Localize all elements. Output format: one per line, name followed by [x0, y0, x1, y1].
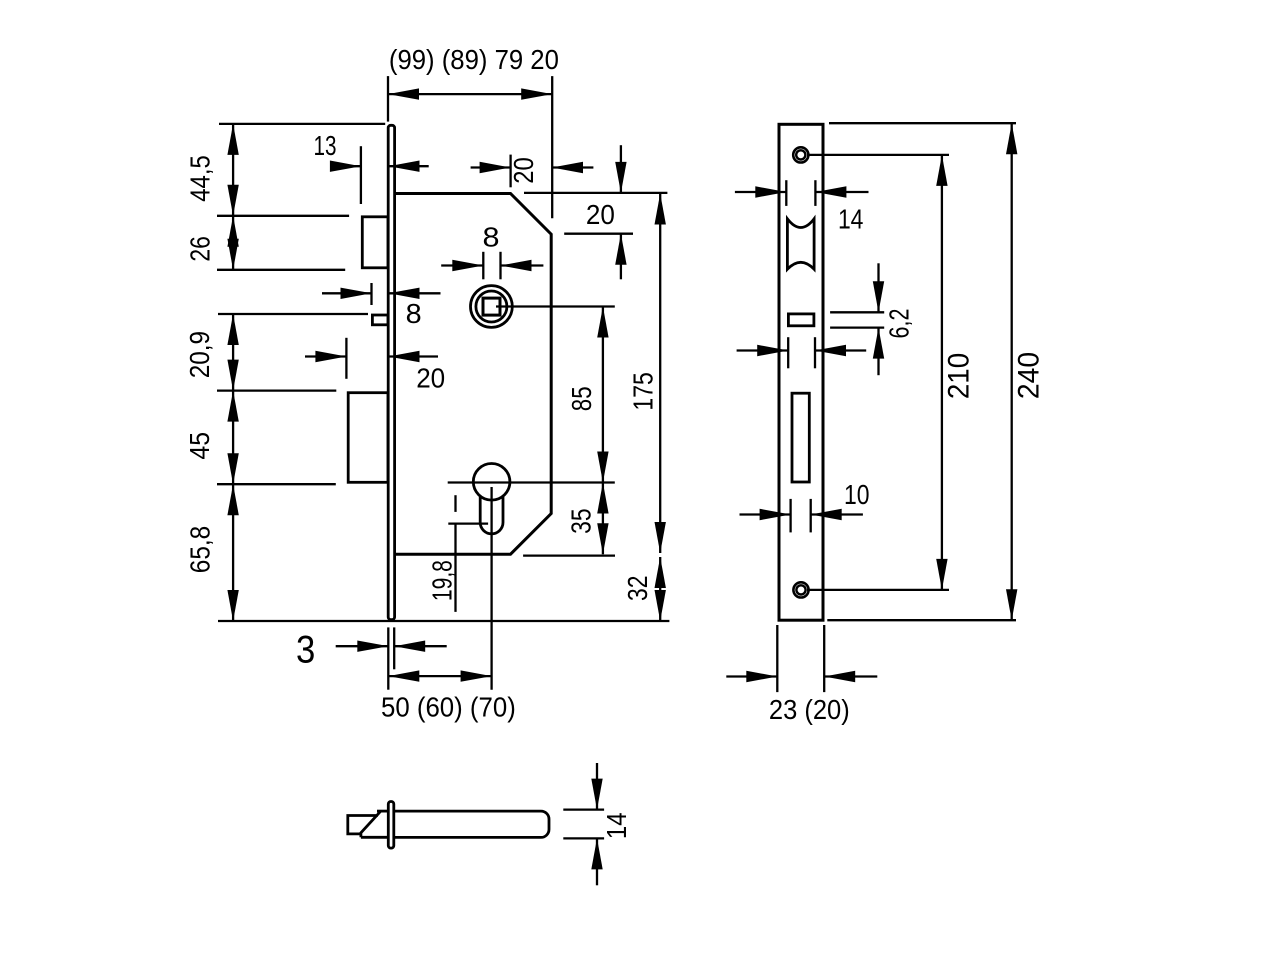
- dimension 65,8 - line and arrows: [227, 484, 238, 621]
- svg-text:50 (60) (70): 50 (60) (70): [381, 691, 516, 722]
- dimension 85 - line and arrows: [597, 307, 608, 483]
- dimension 35 - line and arrows: [597, 483, 608, 555]
- svg-text:65,8: 65,8: [184, 526, 215, 574]
- dimension label 14 bottom: [601, 813, 632, 840]
- dimension 10 - arrows: [740, 509, 863, 520]
- dimension label (99) (89) 79 20: [389, 44, 559, 75]
- dimension label 50 (60) (70): [381, 691, 516, 722]
- latch spindle bar: [392, 811, 549, 837]
- dimension 14 - arrows: [735, 186, 869, 197]
- svg-text:19,8: 19,8: [426, 560, 457, 601]
- svg-text:14: 14: [838, 203, 864, 234]
- screw hole centerlines: [807, 155, 949, 590]
- svg-text:20: 20: [416, 363, 445, 394]
- svg-text:3: 3: [296, 628, 315, 671]
- dimension 14 - extension ticks: [786, 180, 815, 206]
- lock case body outline with beveled corners: [396, 194, 552, 555]
- dimension 10 - extension ticks: [791, 499, 811, 533]
- dimension 19,8 - dimension line segments: [454, 495, 456, 612]
- top screw hole outer: [793, 147, 808, 162]
- dimension 44,5 - line and arrows: [227, 124, 238, 216]
- dimension 210 - line and arrows: [936, 155, 947, 590]
- svg-text:23 (20): 23 (20): [769, 694, 850, 725]
- dimension 19,8 - extension line: [448, 522, 488, 524]
- svg-text:240: 240: [1013, 352, 1046, 399]
- svg-text:20,9: 20,9: [184, 331, 215, 378]
- dimension 8 tab - extension tick: [370, 283, 372, 305]
- euro profile cylinder hole - lower slot: [480, 496, 503, 534]
- dimension 14 bottom - arrows: [591, 763, 602, 885]
- svg-text:8: 8: [406, 298, 422, 329]
- body bottom extension line: [523, 554, 615, 556]
- faceplate side view (3mm strip): [388, 125, 394, 619]
- width dimension ticks middle: [788, 337, 815, 368]
- dimension label 6,2: [884, 309, 915, 339]
- svg-text:44,5: 44,5: [185, 155, 216, 202]
- dimension 6,2 - arrows: [873, 263, 884, 375]
- dimension label 20 bevel: [586, 199, 615, 230]
- dimension label 14 right view: [838, 203, 864, 234]
- dimension label 65,8: [184, 526, 215, 574]
- latch head top and bottom edges: [361, 811, 393, 837]
- latch bolt side view: [362, 217, 388, 268]
- svg-text:85: 85: [566, 386, 597, 411]
- dimension 240 - line and arrows: [1006, 123, 1017, 620]
- svg-text:32: 32: [622, 575, 653, 601]
- faceplate front view outline: [779, 124, 823, 620]
- svg-text:8: 8: [483, 222, 500, 253]
- svg-text:14: 14: [601, 813, 632, 840]
- follower outer circle: [471, 286, 513, 328]
- follower 8mm square spindle hole: [483, 298, 500, 315]
- bottom screw hole outer: [793, 582, 808, 597]
- dimension 20 deadbolt - arrows: [305, 351, 438, 362]
- dimension label 20 deadbolt: [416, 363, 445, 394]
- svg-text:175: 175: [628, 372, 659, 410]
- dimension label 240: [1013, 352, 1046, 399]
- latch head bevel: [361, 811, 381, 837]
- dimension label 20,9: [184, 331, 215, 378]
- dimension 20 bevel - extension lines: [524, 193, 667, 234]
- deadbolt side view: [348, 393, 388, 483]
- dimension 20 bevel - arrows: [615, 145, 626, 279]
- guide tab on faceplate: [372, 315, 388, 325]
- dimension label 23 (20): [769, 694, 850, 725]
- dimension 20 top - extension tick: [509, 155, 511, 188]
- dimension 3 - extension lines: [388, 627, 394, 689]
- faceplate collar cross-section: [388, 802, 394, 849]
- svg-text:10: 10: [844, 479, 870, 510]
- tab cutout in faceplate: [788, 314, 814, 326]
- latch cutout in faceplate: [787, 219, 814, 269]
- top screw hole inner: [796, 150, 805, 159]
- dimension 26 - line and arrows: [227, 216, 238, 270]
- dimension 23 (20) - arrows: [726, 671, 877, 682]
- dimension 32 - line and arrows: [655, 557, 666, 621]
- dimension label 20 top rotated: [508, 157, 539, 184]
- bottom screw hole inner: [796, 585, 805, 594]
- width dimension arrows middle: [737, 345, 867, 356]
- svg-text:20: 20: [586, 199, 615, 230]
- dimension label 210: [943, 353, 976, 399]
- dimension 175 - line and arrows: [655, 194, 666, 554]
- dimension label 45: [184, 432, 215, 460]
- dimension label 35: [566, 508, 597, 534]
- dimension label 10: [844, 479, 870, 510]
- dimension label 44,5: [185, 155, 216, 202]
- dimension label 3: [296, 628, 315, 671]
- dimension label 26: [185, 236, 216, 262]
- dimension 8 spindle - arrows: [441, 260, 543, 271]
- latch head narrow tip: [348, 816, 378, 834]
- svg-text:20: 20: [508, 157, 539, 184]
- faceplate height extension lines: [827, 123, 1016, 620]
- svg-text:6,2: 6,2: [884, 309, 915, 339]
- dimension 20,9 - line and arrows: [227, 314, 238, 391]
- dimension 20 deadbolt - extension tick: [345, 338, 347, 379]
- dimension 8 spindle - extension ticks: [483, 252, 500, 279]
- dimension 6,2 - extension lines: [830, 312, 884, 327]
- dimension 50 (60) (70) - line and arrows: [388, 670, 491, 681]
- dimension 45 - line and arrows: [227, 391, 238, 485]
- dimension label 8 spindle: [483, 222, 500, 253]
- dimension 14 bottom - extension lines: [563, 810, 604, 839]
- follower centerline extension: [496, 305, 615, 307]
- svg-text:(99) (89) 79 20: (99) (89) 79 20: [389, 44, 559, 75]
- cylinder centerline down to backset dim: [490, 487, 492, 690]
- svg-text:45: 45: [184, 432, 215, 460]
- dimension (99) (89) 79 20 - extension lines: [388, 76, 552, 218]
- dimension 20 top - arrows: [471, 162, 594, 173]
- dimension label 175: [628, 372, 659, 410]
- bottom reference line: [218, 620, 669, 622]
- left chain extension lines: [217, 124, 385, 484]
- dimension label 19,8: [426, 560, 457, 601]
- dimension 23 (20) - extension lines: [777, 625, 824, 692]
- svg-text:210: 210: [943, 353, 976, 399]
- euro profile cylinder hole - circle: [473, 464, 510, 501]
- dimension label 13: [314, 130, 337, 161]
- dimension (99) (89) 79 20 - dimension line with arrows: [388, 88, 552, 99]
- dimension label 8 tab: [406, 298, 422, 329]
- follower inner circle: [476, 291, 507, 322]
- svg-text:26: 26: [185, 236, 216, 262]
- svg-text:13: 13: [314, 130, 337, 161]
- svg-text:35: 35: [566, 508, 597, 534]
- deadbolt cutout in faceplate: [792, 393, 809, 482]
- dimension 13 - extension tick: [360, 146, 362, 204]
- dimension label 32: [622, 575, 653, 601]
- dimension label 85: [566, 386, 597, 411]
- cylinder centerline extension: [448, 481, 615, 483]
- dimension 13 - arrows: [330, 161, 429, 172]
- dimension 3 - arrows: [336, 641, 447, 652]
- dimension 8 tab - arrows: [322, 288, 441, 299]
